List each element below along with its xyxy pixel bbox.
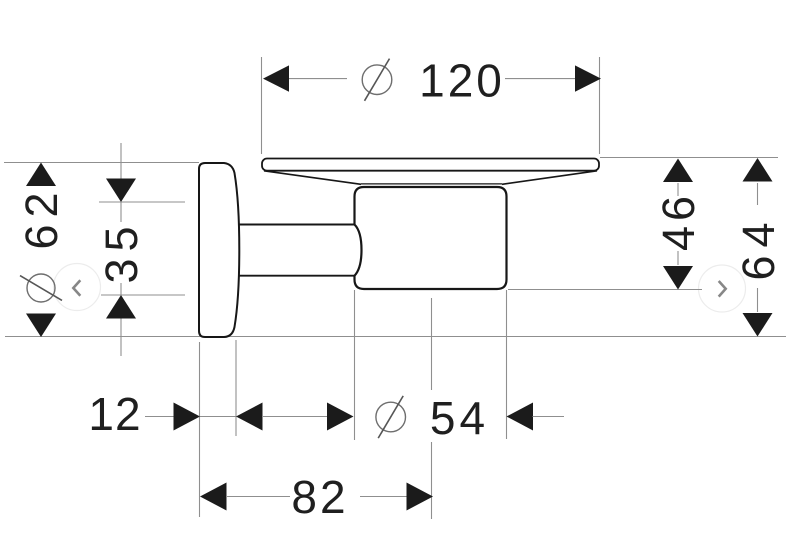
svg-text:46: 46 <box>653 191 704 251</box>
extension line: cup left x=354 <box>354 290 356 440</box>
wall rosette <box>199 163 239 337</box>
svg-text:120: 120 <box>419 55 505 107</box>
soap dish cup <box>355 187 507 289</box>
dim 12: leader line <box>145 416 176 418</box>
svg-text:35: 35 <box>96 219 147 283</box>
dim 64: arrow down <box>743 313 773 337</box>
dim 12: arrow pointing right at wall <box>174 403 201 431</box>
dim 35: dim line tail <box>120 318 122 356</box>
dim 62: arrow down <box>26 314 56 338</box>
carousel chevron right <box>719 281 726 297</box>
extension line: 35 lower <box>101 294 185 296</box>
dim 82: line right <box>360 496 407 498</box>
svg-text:54: 54 <box>430 392 489 444</box>
dim 64: line above bottom arrow <box>757 288 759 312</box>
carousel chevron left <box>73 280 80 296</box>
dish underside cone right <box>502 171 597 185</box>
svg-text:62: 62 <box>16 185 67 249</box>
svg-text:12: 12 <box>88 388 141 440</box>
dim 12: line between <box>200 416 236 418</box>
dim 46: arrow down <box>663 266 693 290</box>
extension line: cup right x=506.5 <box>506 290 508 439</box>
dim 46: line below top arrow <box>677 183 679 196</box>
dim Ø120: diameter symbol <box>362 59 392 101</box>
carousel button left background <box>54 264 101 311</box>
dim Ø54: trailing line <box>533 416 565 418</box>
extension line: rosette front x=236 <box>235 340 237 436</box>
dim 35: dim line upper <box>120 143 122 180</box>
dim 35: dim line lower <box>120 283 122 295</box>
svg-text:82: 82 <box>291 471 348 523</box>
arm <box>239 225 357 276</box>
dim 64: line below top arrow <box>757 183 759 205</box>
extension line: plate left edge (top dim) <box>261 57 263 154</box>
dim 64: arrow up <box>743 158 773 182</box>
extension line: rosette top (left) <box>4 162 199 164</box>
dim 82: arrow pointing right at cup centre <box>407 483 434 511</box>
dim Ø54: diameter symbol <box>376 396 406 438</box>
dim Ø120: arrow right <box>575 65 601 91</box>
dish underside edge <box>361 183 502 185</box>
extension line: wall surface x=199.5 <box>199 342 201 517</box>
dim 46: line above bottom arrow <box>677 251 679 265</box>
dim Ø120: line left <box>287 78 347 80</box>
extension line: cup centre x=431.5 lower <box>431 442 433 519</box>
dim 12: arrow pointing left at rosette front <box>236 403 263 431</box>
extension line: dish top (right side) <box>600 157 778 159</box>
dim 62: arrow up <box>26 163 56 187</box>
dim 35: arrow down (points at y202) <box>106 179 136 203</box>
extension line: 35 upper <box>99 201 185 203</box>
dish underside cone left <box>264 171 361 185</box>
dim 46: arrow up <box>663 159 693 183</box>
extension line: cup centre x=431.5 upper <box>431 298 433 390</box>
dim 35: dim line middle <box>120 202 122 222</box>
extension line: plate right edge (top dim) <box>599 57 601 154</box>
carousel button right background <box>699 265 746 312</box>
dim Ø54: arrow pointing left at cup right <box>507 403 534 431</box>
dim 82: arrow pointing left at wall <box>200 483 227 511</box>
baseline reference line (wall bottom, full width) <box>5 336 786 338</box>
dim Ø54: arrow pointing right at cup left <box>327 403 354 431</box>
dim 62: diameter symbol (rotated) <box>20 274 62 302</box>
extension line: cup bottom (right side) <box>508 289 702 291</box>
svg-text:64: 64 <box>733 214 784 280</box>
dim Ø120: arrow left <box>263 65 289 91</box>
dim 35: arrow up (points at y295) <box>106 295 136 319</box>
dim 12: trailing line <box>262 416 327 418</box>
dim 82: line left <box>226 496 290 498</box>
dim Ø120: line right <box>505 78 577 80</box>
dish plate slab <box>262 159 599 171</box>
